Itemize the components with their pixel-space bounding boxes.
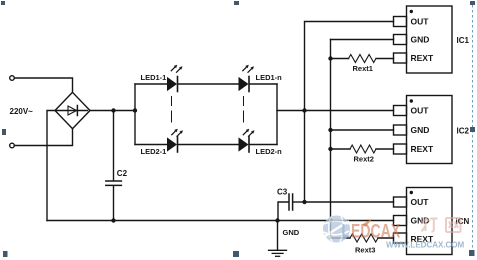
- LED block left rail: [134, 84, 136, 145]
- LED block right rail: [276, 84, 278, 145]
- wire: row2 anode: [135, 144, 167, 146]
- node: Rext1 junction: [328, 56, 332, 60]
- selection handle bottom-right: [469, 250, 475, 256]
- resistor Rext3: [331, 221, 394, 243]
- svg-text:OUT: OUT: [411, 197, 430, 207]
- ICN pin-1 dot: [410, 191, 413, 194]
- LED1-1 arrows: [171, 65, 182, 73]
- wire: main bus LED block to IC2 OUT: [277, 110, 394, 112]
- node: C3 right junction: [302, 200, 306, 204]
- svg-text:GND: GND: [411, 125, 430, 135]
- wire: row1 to right rail: [250, 83, 278, 85]
- LED LED1-n: [239, 77, 250, 92]
- node: C2 bottom on rail: [111, 218, 115, 222]
- wire: bridge minus (left vertex) down to ground rail: [47, 111, 55, 221]
- selection handle middle-left: [2, 129, 6, 135]
- svg-text:Rext1: Rext1: [353, 64, 373, 73]
- svg-text:L: L: [342, 220, 351, 242]
- wire: IC1 GND net: [331, 39, 394, 41]
- svg-text:LED1-1: LED1-1: [141, 73, 167, 82]
- svg-text:LED2-1: LED2-1: [141, 147, 167, 156]
- wire: ICN OUT net: [305, 201, 394, 203]
- resistor Rext2: [331, 145, 394, 153]
- op ICN box: [394, 188, 453, 255]
- LED2-1 arrows: [172, 129, 183, 137]
- svg-text:OUT: OUT: [411, 17, 430, 27]
- op IC1 box: [394, 6, 453, 73]
- node: LED left rail junction: [133, 108, 137, 112]
- watermark text LEDCAX: [342, 220, 401, 242]
- svg-text:GND: GND: [411, 35, 430, 45]
- svg-text:REXT: REXT: [411, 144, 434, 154]
- node: C2 top junction: [111, 108, 115, 112]
- svg-text:LED1-n: LED1-n: [256, 73, 283, 82]
- IC2 pin-1 dot: [410, 99, 413, 102]
- watermark Chinese char deng: [421, 218, 438, 232]
- continuation marks column 2: [243, 97, 245, 123]
- selection handle top-right: [470, 1, 475, 5]
- svg-text:REXT: REXT: [411, 53, 434, 63]
- continuation marks column 1: [171, 97, 173, 123]
- AC input terminal top: [10, 76, 15, 81]
- LED1-n arrows: [243, 65, 254, 73]
- wire: bridge plus output to LED block: [90, 110, 135, 112]
- ground symbol: [269, 221, 287, 257]
- svg-text:Rext3: Rext3: [355, 246, 375, 255]
- node: Rext2 junction: [328, 147, 332, 151]
- resistor Rext1: [331, 55, 394, 63]
- LED LED2-1: [167, 137, 178, 152]
- LED LED1-1: [167, 77, 178, 92]
- selection handle bottom-left: [3, 251, 8, 257]
- node: ground junction on rail: [275, 218, 279, 222]
- selection border right dashed: [472, 5, 474, 250]
- svg-text:IC1: IC1: [457, 36, 470, 45]
- wire: IC1 OUT net: [305, 22, 394, 111]
- svg-text:220V~: 220V~: [10, 107, 34, 116]
- wire: row2 middle: [178, 144, 239, 146]
- AC input terminal bottom: [10, 143, 15, 148]
- LED2-n arrows: [243, 129, 254, 137]
- wire: bottom terminal to bridge bottom vertex: [14, 129, 72, 145]
- wire: row1 middle: [178, 83, 239, 85]
- watermark logo globe: [323, 216, 350, 243]
- svg-text:C3: C3: [277, 188, 288, 197]
- watermark swoosh: [362, 219, 373, 227]
- capacitor C3: [278, 194, 305, 221]
- svg-text:Rext2: Rext2: [354, 155, 374, 164]
- watermark Chinese char wang: [446, 218, 461, 232]
- svg-text:GND: GND: [411, 216, 430, 226]
- op IC2 box: [394, 96, 453, 164]
- wire: common GND vertical net: [330, 40, 332, 221]
- IC1 pin-1 dot: [410, 10, 413, 13]
- node: GND net on rail: [328, 218, 332, 222]
- selection handle top-left: [1, 1, 5, 5]
- selection handle bottom-middle: [233, 251, 239, 257]
- capacitor C2: [106, 111, 122, 221]
- wire: top terminal to bridge top vertex: [14, 78, 72, 92]
- svg-text:C2: C2: [117, 169, 128, 178]
- svg-text:IC2: IC2: [457, 127, 470, 136]
- wire: OUT bus down to C3 / ICN OUT: [304, 111, 306, 203]
- LED LED2-n: [239, 137, 250, 152]
- svg-text:WWW.LEDCAX.COM: WWW.LEDCAX.COM: [386, 241, 465, 250]
- node: main bus / IC1 OUT drop junction: [302, 108, 306, 112]
- svg-text:LED2-n: LED2-n: [256, 147, 283, 156]
- bridge rectifier diode symbol: [57, 106, 88, 116]
- svg-text:EDCAX: EDCAX: [351, 220, 400, 242]
- selection handle middle-right: [470, 127, 475, 132]
- selection handle top-middle: [234, 1, 239, 5]
- bridge rectifier D1 diamond: [55, 92, 90, 128]
- ground rail (bottom bus): [47, 220, 394, 222]
- wire: row1 anode: [135, 83, 167, 85]
- svg-text:GND: GND: [283, 228, 300, 237]
- wire: row2 to right rail: [250, 144, 278, 146]
- wire: IC2 GND net: [331, 129, 394, 131]
- svg-text:OUT: OUT: [411, 106, 430, 116]
- node: IC2 GND junction: [328, 128, 332, 132]
